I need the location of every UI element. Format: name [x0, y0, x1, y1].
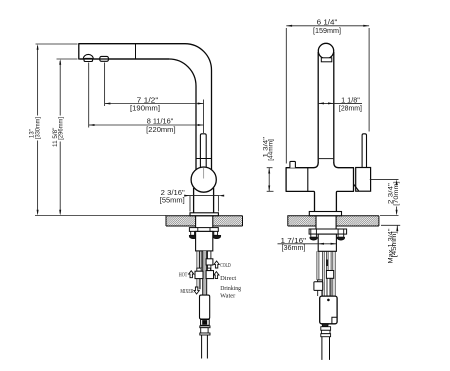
drinking water tube left view [208, 251, 211, 271]
mounting plate left view [189, 228, 218, 232]
svg-text:[44mm]: [44mm] [268, 139, 274, 161]
mixer hose weight left view [200, 295, 210, 319]
filter corner notch [332, 317, 337, 323]
dimension 11 5/8" extension line top [57, 58, 78, 60]
dimension 2 3/16" [55mm] [186, 196, 220, 212]
svg-text:[45mm]: [45mm] [392, 231, 398, 257]
dark hose dash right view [326, 260, 328, 267]
svg-text:[330mm]: [330mm] [36, 117, 42, 139]
spout bottom line over bumps [80, 58, 169, 60]
check valve upper (cold inlet) [206, 259, 213, 265]
dimension 2 3/4" [70mm] [370, 179, 399, 215]
mounting plate right view [309, 229, 347, 234]
spout outline left view [79, 44, 212, 170]
svg-text:COLD: COLD [220, 262, 231, 269]
hose tail tube left view [202, 335, 208, 359]
dimension 11 5/8" [296mm] vertical line [59, 61, 61, 214]
mounting bolt left right view [310, 234, 317, 240]
dimension 1 1/8" [28mm] [318, 102, 362, 104]
spout joint line (spray head separation) [135, 44, 137, 59]
handle block right view [356, 168, 371, 192]
mounting bolt right [212, 231, 220, 238]
countertop right view [288, 216, 379, 226]
hose flange 1 [200, 326, 210, 328]
base plate right view [309, 212, 341, 216]
left connector tab right view [318, 280, 323, 282]
arrow down MIXER [194, 287, 199, 294]
aerator ring right view [321, 58, 332, 62]
dimension 1 7/16" [36mm] [278, 243, 337, 245]
dimension 13" arrows [37, 44, 39, 216]
bottom extension line to counter [35, 215, 166, 217]
left arm divider right view [307, 168, 309, 192]
body below ball left view [194, 188, 214, 213]
left connector stub [318, 290, 322, 296]
check valve lower (drinking) [206, 271, 213, 279]
middle connector stub [327, 278, 330, 296]
left connector right view [314, 282, 323, 291]
svg-text:[28mm]: [28mm] [339, 103, 362, 112]
mounting bolt right right view [337, 234, 344, 240]
svg-text:[55mm]: [55mm] [160, 195, 185, 204]
drinking valve tab [207, 268, 210, 271]
handle diagonal right view [354, 184, 359, 191]
dimension 11 5/8" arrows [59, 59, 61, 216]
dimension 13" extension line top [36, 43, 78, 45]
stick hidden line inside ball [203, 168, 205, 179]
tube joint line left view [196, 158, 212, 160]
left knob right view [290, 161, 296, 167]
spray aerator bump2 [100, 56, 109, 61]
filter indicator dot [327, 299, 330, 302]
hot valve tab [197, 268, 201, 271]
faucet body right view [286, 168, 353, 212]
hot valve box [195, 271, 203, 278]
dimension 8 11/16" [220mm] line [89, 124, 204, 126]
svg-text:[220mm]: [220mm] [146, 125, 175, 134]
shank through counter right view [316, 216, 336, 229]
shank through counter left view [196, 216, 213, 228]
svg-text:[70mm]: [70mm] [394, 181, 400, 206]
filter outlet dark fitting [322, 324, 328, 327]
hose flange 2 [200, 333, 210, 335]
dimension 7 1/2" [190mm] line [105, 103, 204, 105]
svg-text:[36mm]: [36mm] [282, 243, 306, 252]
mounting bolt left [189, 231, 197, 238]
svg-text:[296mm]: [296mm] [59, 117, 65, 140]
handle stick left view [200, 134, 206, 174]
svg-text:[159mm]: [159mm] [313, 26, 341, 35]
dimension 1 3/4" [44mm] [267, 168, 274, 192]
handle lever right view [362, 134, 366, 168]
svg-text:Direct: Direct [220, 275, 236, 282]
arrow up Direct [214, 272, 219, 279]
svg-text:[190mm]: [190mm] [130, 103, 160, 112]
tube joint line right view [318, 158, 334, 160]
bolt shaft lines in plate right view [311, 229, 344, 234]
dimension 13" [330mm] vertical line [37, 46, 39, 214]
mixer hose left view [203, 251, 207, 295]
svg-text:HOT: HOT [179, 272, 188, 279]
filter housing right view [320, 296, 337, 324]
outlet tube right view [322, 337, 330, 360]
countertop left view [166, 216, 243, 226]
hot cold supply tubes left view [197, 251, 202, 289]
svg-text:MIXER: MIXER [180, 288, 194, 295]
extension line from spray bump2 [104, 63, 106, 107]
middle connector right view [326, 271, 333, 279]
hose mid segment [201, 328, 208, 333]
axis extension line at spout vertical tube [203, 100, 205, 134]
outlet ribbed fitting [321, 327, 331, 331]
arrow up HOT [189, 271, 194, 278]
spout tube right view [318, 52, 334, 163]
hose connector with black square [201, 320, 210, 326]
dimension Max 1 3/4" [45mm] [381, 225, 400, 231]
spray aerator bump1 dome [83, 54, 93, 59]
base flange left view [190, 213, 218, 216]
tube-to-body fillets right view [313, 163, 338, 168]
supply tubes right view [317, 251, 335, 296]
svg-text:Water: Water [220, 292, 236, 299]
ball joint circle left view [191, 167, 216, 192]
arrow up COLD [214, 261, 219, 268]
spray aerator bump1 base [84, 58, 93, 61]
dimension 6 1/4" [159mm] [286, 26, 369, 164]
shank body under counter right view [318, 234, 336, 251]
spout tip ball right view [318, 43, 333, 58]
shank body under counter left view [196, 231, 213, 251]
svg-text:Drinking: Drinking [220, 285, 242, 292]
extension line from spray bump1 [88, 63, 90, 128]
